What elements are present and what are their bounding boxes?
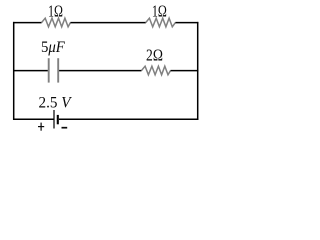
battery V1 minus sign <box>62 127 68 129</box>
wire top-middle segment <box>70 22 145 24</box>
svg-text:1Ω: 1Ω <box>48 1 63 20</box>
wire bottom-right segment <box>59 118 199 120</box>
svg-text:1Ω: 1Ω <box>152 1 167 20</box>
svg-text:2.5 V: 2.5 V <box>39 95 73 112</box>
wire left border <box>13 22 15 120</box>
wire middle-left segment <box>13 70 48 72</box>
capacitor C1 right plate <box>57 58 59 82</box>
svg-text:5μF: 5μF <box>41 39 65 56</box>
battery V1 plus sign <box>38 126 44 128</box>
battery V1 positive plate (tall) <box>53 110 55 129</box>
battery V1 negative plate (short thick) <box>57 115 59 124</box>
resistor R3 zigzag <box>141 66 170 75</box>
resistor R1 zigzag <box>42 18 71 27</box>
wire top-right segment <box>175 22 198 24</box>
wire bottom-left segment <box>13 118 54 120</box>
svg-text:2Ω: 2Ω <box>146 46 163 65</box>
wire middle-right segment <box>171 70 199 72</box>
resistor R2 zigzag <box>146 18 176 27</box>
wire top-left segment <box>13 22 42 24</box>
wire middle-center segment <box>59 70 141 72</box>
capacitor C1 left plate <box>48 58 50 82</box>
wire right border <box>197 22 199 120</box>
